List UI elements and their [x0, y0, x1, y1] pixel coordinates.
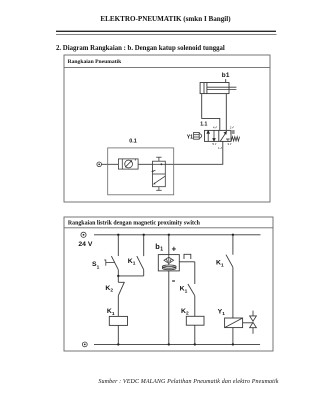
svg-text:1: 1 [160, 247, 163, 253]
svg-text:+: + [172, 244, 177, 253]
wire Y1 coil to rail [232, 328, 234, 345]
svg-text:0.1: 0.1 [129, 138, 137, 144]
relay coil K2 [186, 316, 204, 325]
air service unit 0.2 [118, 159, 138, 169]
svg-text:ELEKTRO-PNEUMATIK (smkn I Bang: ELEKTRO-PNEUMATIK (smkn I Bangil) [100, 15, 231, 23]
svg-text:1: 1 [185, 288, 188, 294]
valve return spring [231, 137, 239, 141]
supply wire from source to valve port 1 [101, 141, 222, 164]
wire b1 to bottom rail [168, 271, 170, 345]
svg-text:2: 2 [110, 288, 113, 294]
wire cylinder cap-end to valve port 4 [202, 94, 220, 131]
+24V terminal [81, 232, 86, 237]
wire rung3b [194, 262, 196, 284]
valve right square flow arrow [220, 132, 226, 142]
solenoid pilot arc [199, 133, 201, 138]
contact K1 holding blade [137, 256, 144, 270]
wire rung4 top [232, 235, 234, 255]
double rule thin [56, 33, 277, 35]
node join S1-K1 [117, 275, 119, 277]
pushbutton S1 contact blade [111, 256, 118, 270]
wire to K2 coil [194, 296, 196, 317]
wire Y1 to suppressor [243, 322, 253, 324]
contact K1 rung4 blade [226, 255, 233, 268]
svg-text:2. Diagram Rangkaian : b. Deng: 2. Diagram Rangkaian : b. Dengan katup s… [56, 45, 225, 52]
pneumatic frame header line [64, 67, 270, 69]
svg-text:24 V: 24 V [78, 241, 92, 248]
solenoid Y1 coil box [194, 132, 200, 139]
svg-text:1: 1 [222, 311, 225, 317]
valve position divider [218, 130, 220, 141]
wire to Y1 coil [232, 267, 234, 318]
wire to K1 coil [117, 296, 119, 317]
cylinder piston [204, 83, 207, 94]
valve U1.1 body [205, 130, 232, 141]
svg-text:Sumber : VEDC MALANG Pelatiha: Sumber : VEDC MALANG Pelatihan Pneumatik… [98, 379, 278, 385]
svg-text:2: 2 [186, 311, 189, 317]
wire rung2 top [143, 235, 145, 256]
svg-text:1: 1 [221, 262, 224, 268]
0V terminal [82, 342, 87, 347]
wire K1 coil to rail [117, 325, 119, 344]
wire cylinder rod-end to valve port 2 [225, 94, 227, 131]
on-off valve 0.3 [151, 157, 165, 190]
svg-text:1: 1 [133, 261, 136, 267]
proximity switch b1 box [158, 255, 179, 271]
valve port ticks [215, 126, 234, 149]
rail junction dots bottom [117, 343, 234, 345]
wire rung1 top [117, 235, 119, 256]
suppressor diode pair [250, 311, 257, 334]
valve manual override hatch box [231, 130, 235, 133]
proximity switch internals [162, 255, 176, 270]
electrical frame header line [64, 227, 273, 229]
valve left square flow arrows [207, 130, 215, 141]
cylinder b1 sensor tick [225, 79, 227, 82]
contact K1 rung3 blade [188, 284, 195, 296]
valve right square blocked port T [226, 139, 230, 141]
wire K2 coil to rail [194, 325, 196, 344]
svg-text:b1: b1 [222, 72, 230, 79]
wire rung3 top [168, 235, 170, 255]
contact K2 NC blade [118, 282, 124, 295]
rail junction dots top [117, 234, 234, 236]
cylinder piston rod [207, 87, 237, 89]
electrical frame box [64, 217, 273, 351]
svg-text:Rangkaian Pneumatik: Rangkaian Pneumatik [68, 59, 123, 65]
group box 0.1 [108, 148, 174, 195]
cylinder b1 body [200, 83, 229, 94]
wire below S1 [117, 270, 119, 283]
wire b1 output [179, 261, 195, 263]
double rule thick [56, 30, 276, 32]
relay coil K1 [109, 316, 127, 325]
valve port labels [212, 125, 231, 150]
svg-text:Rangkaian listrik dengan magne: Rangkaian listrik dengan magnetic proxim… [68, 221, 201, 227]
wire joining branch2 [118, 275, 143, 277]
svg-text:1.1: 1.1 [200, 122, 207, 128]
svg-text:1: 1 [97, 264, 100, 270]
compressed air source [97, 162, 102, 167]
wire rung2 bottom [143, 270, 145, 276]
label minus [172, 280, 175, 282]
svg-text:1: 1 [112, 311, 115, 317]
svg-text:Y1: Y1 [187, 134, 193, 140]
top supply rail [94, 234, 261, 236]
contact K2 NC hook [118, 281, 124, 283]
solenoid coil Y1 [225, 318, 243, 328]
bottom rail [94, 343, 260, 345]
pushbutton S1 actuator [104, 260, 114, 266]
pneumatic frame box [64, 55, 270, 202]
pulse symbol [184, 254, 191, 259]
